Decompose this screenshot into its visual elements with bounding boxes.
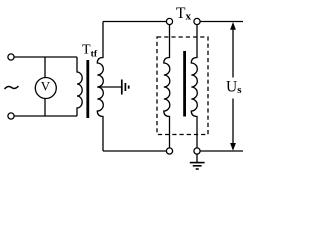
terminal bottom-left bbox=[8, 113, 14, 119]
arrowhead down bbox=[230, 143, 236, 151]
wire voltmeter bottom bbox=[44, 99, 46, 116]
wire center tap to ground bbox=[97, 86, 121, 88]
transformer Ttf core bbox=[86, 60, 89, 118]
wire bottom run bbox=[103, 150, 166, 152]
ground earth bottom bbox=[196, 154, 198, 162]
svg-text:V: V bbox=[41, 78, 51, 93]
wire top run bbox=[103, 21, 166, 23]
voltage arrow Us bbox=[232, 29, 234, 78]
transformer Ttf secondary winding bbox=[97, 22, 103, 152]
AC source tilde bbox=[5, 86, 19, 89]
wire voltmeter top bbox=[44, 57, 46, 77]
wire bottom right run bbox=[200, 150, 243, 152]
transformer Tx left winding bbox=[164, 25, 170, 148]
transformer Ttf primary winding bbox=[77, 57, 82, 116]
wire source top bbox=[14, 56, 77, 58]
terminal Tx top-right bbox=[194, 18, 200, 24]
transformer Tx core bbox=[183, 51, 186, 117]
transformer Tx right winding bbox=[191, 25, 197, 148]
arrowhead up bbox=[230, 22, 236, 30]
terminal top-left bbox=[8, 54, 14, 60]
voltmeter V1 bbox=[35, 78, 56, 99]
terminal Tx bottom-right bbox=[194, 148, 200, 154]
ground rotated (right-pointing) bbox=[121, 80, 123, 95]
terminal Tx bottom-left bbox=[166, 148, 172, 154]
dashed enclosure Tx bbox=[157, 37, 208, 135]
terminal Tx top-left bbox=[166, 18, 172, 24]
wire source bottom bbox=[14, 115, 77, 117]
wire top right run bbox=[200, 21, 243, 23]
